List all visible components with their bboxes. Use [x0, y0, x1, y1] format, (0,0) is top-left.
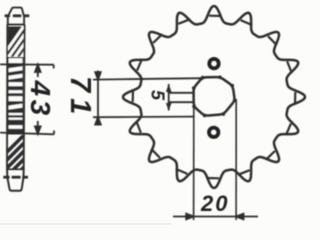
top bolt hole: [209, 59, 218, 68]
dim 17 dimension line w/ arrows: [95, 71, 101, 125]
sprocket front view outline (16 teeth): [123, 6, 305, 188]
side view top tooth: [8, 8, 24, 25]
pitch dashes top: [5, 14, 30, 17]
svg-text:43: 43: [25, 80, 56, 119]
side view bottom tooth: [7, 169, 24, 191]
splined center hole: [194, 77, 235, 115]
dim 17 extension lines: [93, 78, 203, 117]
side view body edges: [7, 24, 25, 169]
svg-text:20: 20: [200, 191, 229, 216]
bottom hatch band: [0, 132, 75, 172]
svg-text:5: 5: [148, 90, 168, 101]
bottom bolt hole: [209, 128, 218, 137]
dim 20 extension lines: [194, 99, 237, 220]
tooth tip chord lines: [133, 16, 296, 179]
svg-text:71: 71: [64, 76, 96, 120]
dim 20 dimension line: [173, 214, 258, 220]
dim 34 arrows: [35, 65, 41, 134]
dim 34 extension lines: [0, 64, 54, 134]
dim 5 lines: [169, 84, 194, 111]
pitch dashes bottom: [3, 176, 28, 179]
side view group: [0, 8, 75, 191]
splined bore section: [8, 57, 24, 135]
faint scan streak: [0, 223, 172, 224]
